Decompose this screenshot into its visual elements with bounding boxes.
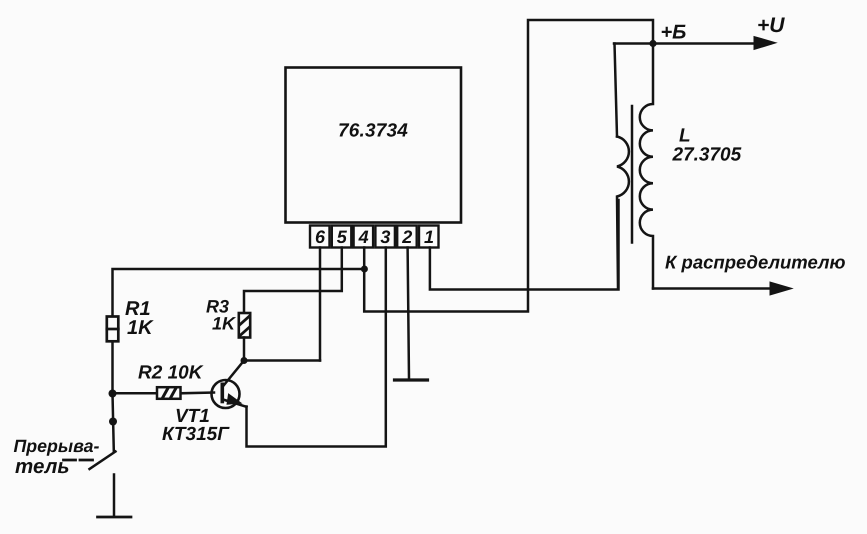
node base junction dot: [109, 390, 117, 398]
pin box 5: [332, 226, 352, 248]
coil L secondary winding: [640, 44, 653, 289]
svg-text:2: 2: [401, 227, 412, 247]
wire pin5 to R3 top: [244, 248, 342, 314]
wire secondary to distributor arrow: [653, 287, 786, 290]
svg-text:1K: 1K: [127, 317, 154, 339]
coil L primary winding: [617, 137, 629, 289]
switch blade (preryvatel): [90, 452, 116, 470]
wire pin4 down through node to +B rail: [364, 20, 653, 312]
wire R2 horizontal: [113, 391, 215, 394]
wire pin6 to collector node: [319, 248, 322, 361]
wire pin2 to ground: [408, 248, 409, 380]
svg-text:1K: 1K: [212, 314, 237, 334]
svg-text:6: 6: [315, 227, 326, 247]
pin box 1: [419, 226, 439, 248]
resistor R2 body: [157, 387, 181, 399]
pin box 3: [375, 226, 395, 248]
svg-text:+Б: +Б: [661, 22, 687, 44]
svg-text:3: 3: [380, 227, 390, 247]
pin box 4: [354, 226, 374, 248]
svg-text:R2 10K: R2 10K: [138, 363, 204, 384]
wire switch to ground: [113, 475, 116, 517]
svg-text:Прерыва-: Прерыва-: [14, 436, 100, 456]
wire R1 bottom to base node: [111, 341, 114, 393]
wire collector node to pin6: [244, 359, 320, 362]
distributor arrowhead: [770, 282, 792, 295]
resistor R3 body: [239, 313, 250, 338]
pin box 2: [397, 226, 417, 248]
node dot 2: [109, 418, 117, 426]
svg-text:L: L: [679, 126, 691, 147]
svg-text:27.3705: 27.3705: [672, 145, 742, 166]
svg-text:КТ315Г: КТ315Г: [162, 424, 230, 445]
wire base node down to switch: [113, 394, 114, 452]
ground at switch: [98, 516, 132, 519]
coil core: [631, 106, 634, 243]
wire R3 bottom to collector node: [243, 338, 246, 361]
IC box U1 76.3734: [286, 68, 462, 223]
svg-text:К распределителю: К распределителю: [665, 252, 846, 273]
wire node A to R1 top: [113, 269, 365, 316]
svg-text:тель: тель: [15, 455, 70, 478]
ground at pin2: [395, 378, 428, 381]
resistor R1 body: [107, 317, 119, 342]
coil primary wire top: [615, 44, 618, 137]
collector node junction dot: [241, 357, 248, 364]
+B rail horizontal with +U arrow: [614, 42, 770, 45]
svg-text:1: 1: [424, 227, 434, 247]
node A junction dot: [361, 266, 368, 273]
+U arrowhead: [754, 37, 776, 50]
transistor VT1: [212, 361, 247, 409]
svg-text:5: 5: [337, 227, 348, 247]
wire pin1 to coil primary bottom: [430, 200, 619, 290]
svg-text:+U: +U: [757, 14, 785, 37]
svg-text:4: 4: [358, 227, 369, 247]
svg-text:76.3734: 76.3734: [338, 121, 408, 142]
+B junction dot: [649, 40, 656, 47]
wire pin3 down to emitter bottom wire: [247, 248, 386, 447]
pin box 6: [310, 226, 330, 248]
switch linkage dashes: [64, 459, 93, 462]
